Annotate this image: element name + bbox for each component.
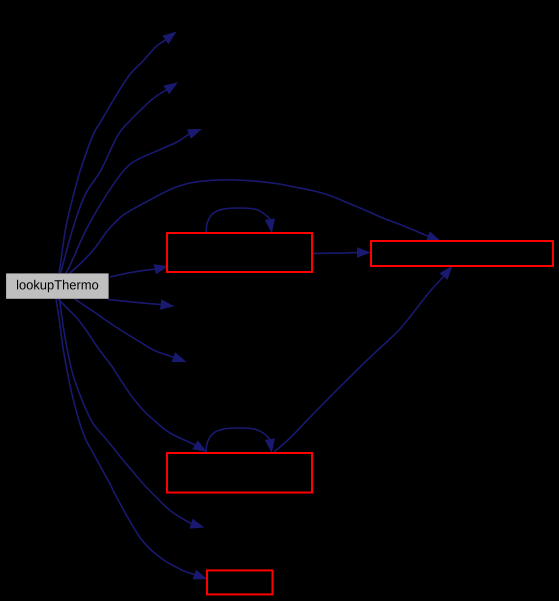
- node boxE: [207, 570, 273, 594]
- node boxC: [371, 241, 553, 266]
- node boxB: [167, 233, 312, 272]
- wire lookupThermo->hidden5: [75, 299, 187, 362]
- wire lookupThermo->boxC: [70, 180, 441, 273]
- wire lookupThermo->boxD: [58, 299, 207, 452]
- wire boxD self-loop: [206, 428, 275, 453]
- wire boxB->boxC: [313, 247, 371, 257]
- wire boxB self-loop: [206, 208, 275, 233]
- wire boxD->boxC: [274, 266, 453, 452]
- wire lookupThermo->hidden2: [61, 82, 179, 273]
- wire lookupThermo->hidden3: [66, 129, 202, 273]
- wire lookupThermo->hidden4: [108, 299, 175, 309]
- wire lookupThermo->boxB: [110, 264, 169, 277]
- node boxD: [167, 453, 312, 493]
- wire lookupThermo->boxE: [56, 299, 208, 579]
- wire lookupThermo->hidden6: [60, 299, 205, 529]
- node lookupThermo: [6, 273, 109, 298]
- wire lookupThermo->hidden1: [59, 32, 177, 274]
